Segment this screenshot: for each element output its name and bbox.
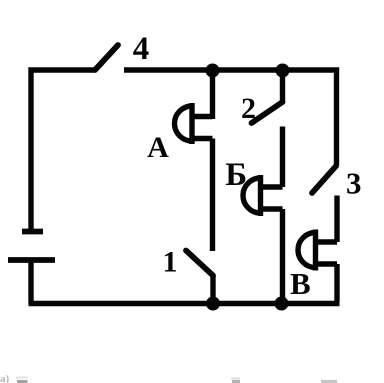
svg-text:2: 2	[241, 92, 256, 125]
bell Б flat side	[258, 175, 263, 216]
battery short plate (negative)	[22, 229, 43, 235]
bell А bottom lead	[192, 136, 213, 141]
bell А top lead	[192, 114, 213, 119]
bell В bottom lead	[316, 261, 338, 266]
wire: branch 2 from top node down to switch 2	[280, 70, 285, 102]
node: top junction of branch 2	[276, 64, 290, 78]
svg-text:а): а)	[0, 373, 10, 383]
svg-text:Б: Б	[225, 157, 247, 193]
node: bottom junction of branch 1	[206, 297, 220, 311]
switch 1 (open, arm up-left from hinge)	[186, 251, 213, 276]
bell Б top lead	[261, 184, 283, 189]
bell А arc	[175, 106, 193, 141]
svg-text:4: 4	[133, 31, 150, 67]
wire: top from switch 4 to top-right corner, down right side to switch 3	[124, 70, 337, 166]
wire: right side from switch 3 down to bell В	[334, 196, 339, 243]
bell Б bottom lead	[261, 206, 283, 211]
battery long plate (positive)	[8, 257, 55, 263]
svg-text:1: 1	[163, 246, 178, 279]
wire: switch 1 hinge down to bottom node	[210, 276, 215, 304]
node: top junction of branch 1	[206, 64, 220, 78]
cut-off caption text at bottom edge	[0, 373, 337, 383]
svg-text:А: А	[147, 131, 169, 164]
bell В top lead	[316, 239, 338, 244]
switch 3 (open, arm down-left)	[312, 166, 336, 193]
svg-text:В: В	[290, 266, 311, 301]
wire: branch 2 from bell Б down to bottom node	[280, 209, 285, 304]
wire: branch 1 from top node down to bell А	[210, 70, 215, 119]
node: bottom junction of branch 2	[275, 297, 289, 311]
wire: bottom rail	[29, 301, 340, 306]
wire: left side bottom, battery long plate to bottom rail	[28, 260, 33, 304]
bell А flat side	[189, 103, 194, 144]
wire: branch 1 from bell А down to switch 1 contact	[210, 139, 215, 252]
switch 4 (open, arm up-right)	[95, 45, 118, 70]
svg-text:3: 3	[346, 166, 362, 201]
bell Б arc	[243, 178, 261, 213]
bell В flat side	[313, 230, 318, 271]
wire: branch 2 from switch 2 down to bell Б	[280, 127, 285, 188]
wire: left side from battery short plate up to top-left corner and across to switch 4	[31, 70, 95, 231]
wire: right side from bell В to bottom-right corner	[334, 264, 339, 301]
switch 2 (open, arm down-left)	[252, 102, 283, 123]
bell В arc	[298, 233, 316, 268]
